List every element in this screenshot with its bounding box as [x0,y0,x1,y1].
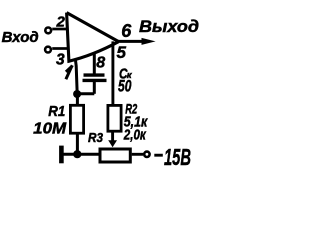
wire pin8 vertical [93,52,96,74]
arrowhead output [142,38,156,45]
wire capacitor bottom [93,80,96,93]
rail end bar (common) [59,146,64,164]
svg-text:3: 3 [56,51,65,68]
wire output pin6 [117,40,147,43]
wire R1 to rail [76,134,79,155]
capacitor C bottom plate [83,79,107,82]
wire horizontal to node [77,92,94,95]
svg-text:6: 6 [121,21,132,41]
rail wire horizontal [62,153,100,156]
svg-text:50: 50 [118,77,132,96]
node junction dot B [73,150,81,158]
svg-text:15В: 15В [164,144,191,170]
svg-text:R1: R1 [48,104,65,120]
svg-text:Вход: Вход [2,30,39,46]
svg-text:Выход: Выход [139,17,199,36]
capacitor C top plate [84,73,105,76]
resistor R2 body [108,105,121,131]
wire pin3 [52,47,68,50]
input terminal pin2 [45,28,51,34]
terminal -15V [144,152,149,157]
svg-text:2,0к: 2,0к [123,127,147,144]
svg-text:10М: 10М [33,120,67,137]
svg-text:5: 5 [117,43,127,62]
wire pin5 vertical [111,41,114,105]
pin number 1 [67,67,72,78]
node junction dot A [73,90,81,98]
wire R2 to wiper [111,132,114,142]
svg-text:R3: R3 [88,131,103,145]
wire pin1 [75,60,77,95]
op-amp U1 triangle [67,13,119,62]
resistor R1 body [70,105,83,133]
resistor R3 body (potentiometer) [100,149,130,162]
wire node to R1 [76,94,79,105]
wire R3 to terminal [132,153,143,156]
wire pin2 [52,28,67,31]
wiper arrowhead R3 [108,140,117,147]
input terminal pin3 [45,47,51,53]
svg-text:8: 8 [96,55,105,72]
label -15В [154,154,163,157]
svg-text:2: 2 [56,14,66,31]
